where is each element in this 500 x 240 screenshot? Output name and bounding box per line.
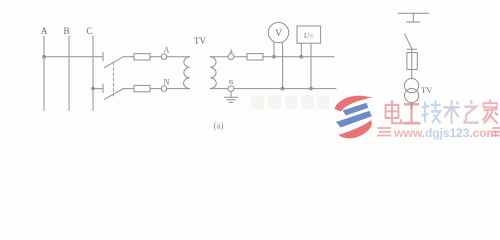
wire terminal N to winding [167,88,190,90]
char 技 [422,100,441,123]
char 电 [386,100,402,123]
svg-text:N: N [164,78,170,87]
svg-text:A: A [164,46,170,55]
svg-text:TV: TV [421,85,433,95]
wire FU1 to terminal A [150,56,161,58]
fuse FU4 [407,53,417,70]
disconnector QS pole 1 blade [105,57,123,68]
wire terminal A to winding [167,56,190,58]
disconnector QS pole 2 contact tick [102,84,104,93]
watermark text 电工技术之家 (drawn strokes) [386,100,499,124]
wire PV left lead to top rail [273,42,275,57]
wire bus stub [412,13,414,22]
busbar C [92,36,94,111]
wire FU2 to terminal N [150,88,161,90]
junction dot PV on bottom rail [281,87,285,91]
svg-text:C: C [86,27,92,37]
wire blade to fuse FU2 [123,88,134,90]
voltmeter PV [268,22,288,42]
junction dot on bus C [91,87,95,91]
busbar A [43,36,45,111]
relay KV box [297,26,321,43]
busbar B [68,36,70,111]
busbar (single line diagram) [398,12,429,14]
schematic text labels [41,27,434,131]
faint ghost watermark smudge [251,95,329,109]
fuse FU3 [247,54,263,60]
junction dot on bus A [42,55,46,59]
transformer TV2 secondary circle [405,89,419,103]
disconnector QS linkage (dashed) [113,63,115,97]
disconnector QS2 lower contact bar [407,48,417,50]
disconnector QS pole 1 contact tick [102,52,104,61]
junction dot KV on top rail [300,55,304,59]
disconnector QS2 upper contact bar [406,21,420,23]
terminal circle a [228,54,234,60]
wire secondary bottom to terminal B [210,88,228,90]
disconnector QS pole 2 blade [105,89,123,99]
svg-text:A: A [41,27,48,37]
wire blade to fuse FU1 [123,56,134,58]
wire terminal a to fuse FU3 [234,56,247,58]
svg-text:U<: U< [304,32,314,40]
wire terminal B to right end (bottom secondary rail) [234,88,336,90]
char 工 [403,104,421,123]
disconnector QS2 blade [405,34,412,49]
wire PV right lead to bottom rail [282,42,284,89]
transformer TV secondary winding [210,57,216,89]
wire through fuse FU4 [411,49,413,78]
svg-text:B: B [63,27,69,37]
wire KV left lead to top rail [300,43,302,57]
right-hand single-line diagram [398,13,429,108]
transformer TV2 primary circle [405,79,419,93]
wire KV right lead to bottom rail [310,43,312,88]
transformer TV primary winding [184,57,190,89]
wire top rail from bus A to switch [44,56,103,58]
wire secondary top to terminal a [210,56,228,58]
char 术 [444,100,460,124]
wire FU3 to right end (top secondary rail) [263,56,334,58]
svg-text:www.dgjs123.com: www.dgjs123.com [393,126,497,140]
svg-text:(a): (a) [214,121,224,131]
terminal circle N [161,86,166,91]
fuse FU2 [134,85,150,91]
svg-text:TV: TV [194,36,206,46]
wire bottom rail from bus C to switch [93,88,103,90]
fuse FU1 [134,54,150,60]
wire ground stub [230,92,232,98]
svg-text:B: B [229,79,234,86]
char 家 [483,100,499,124]
watermark logo [335,96,374,139]
wire below TV2 [411,103,413,109]
watermark url badge www.dgjs123.com [377,126,500,140]
terminal circle A [161,54,166,59]
ground [225,97,238,102]
junction dot PV on top rail [272,55,276,59]
terminal circle B [228,86,234,92]
svg-text:V: V [275,28,282,39]
char 之 [464,100,480,122]
junction dot KV on bottom rail [309,87,313,91]
